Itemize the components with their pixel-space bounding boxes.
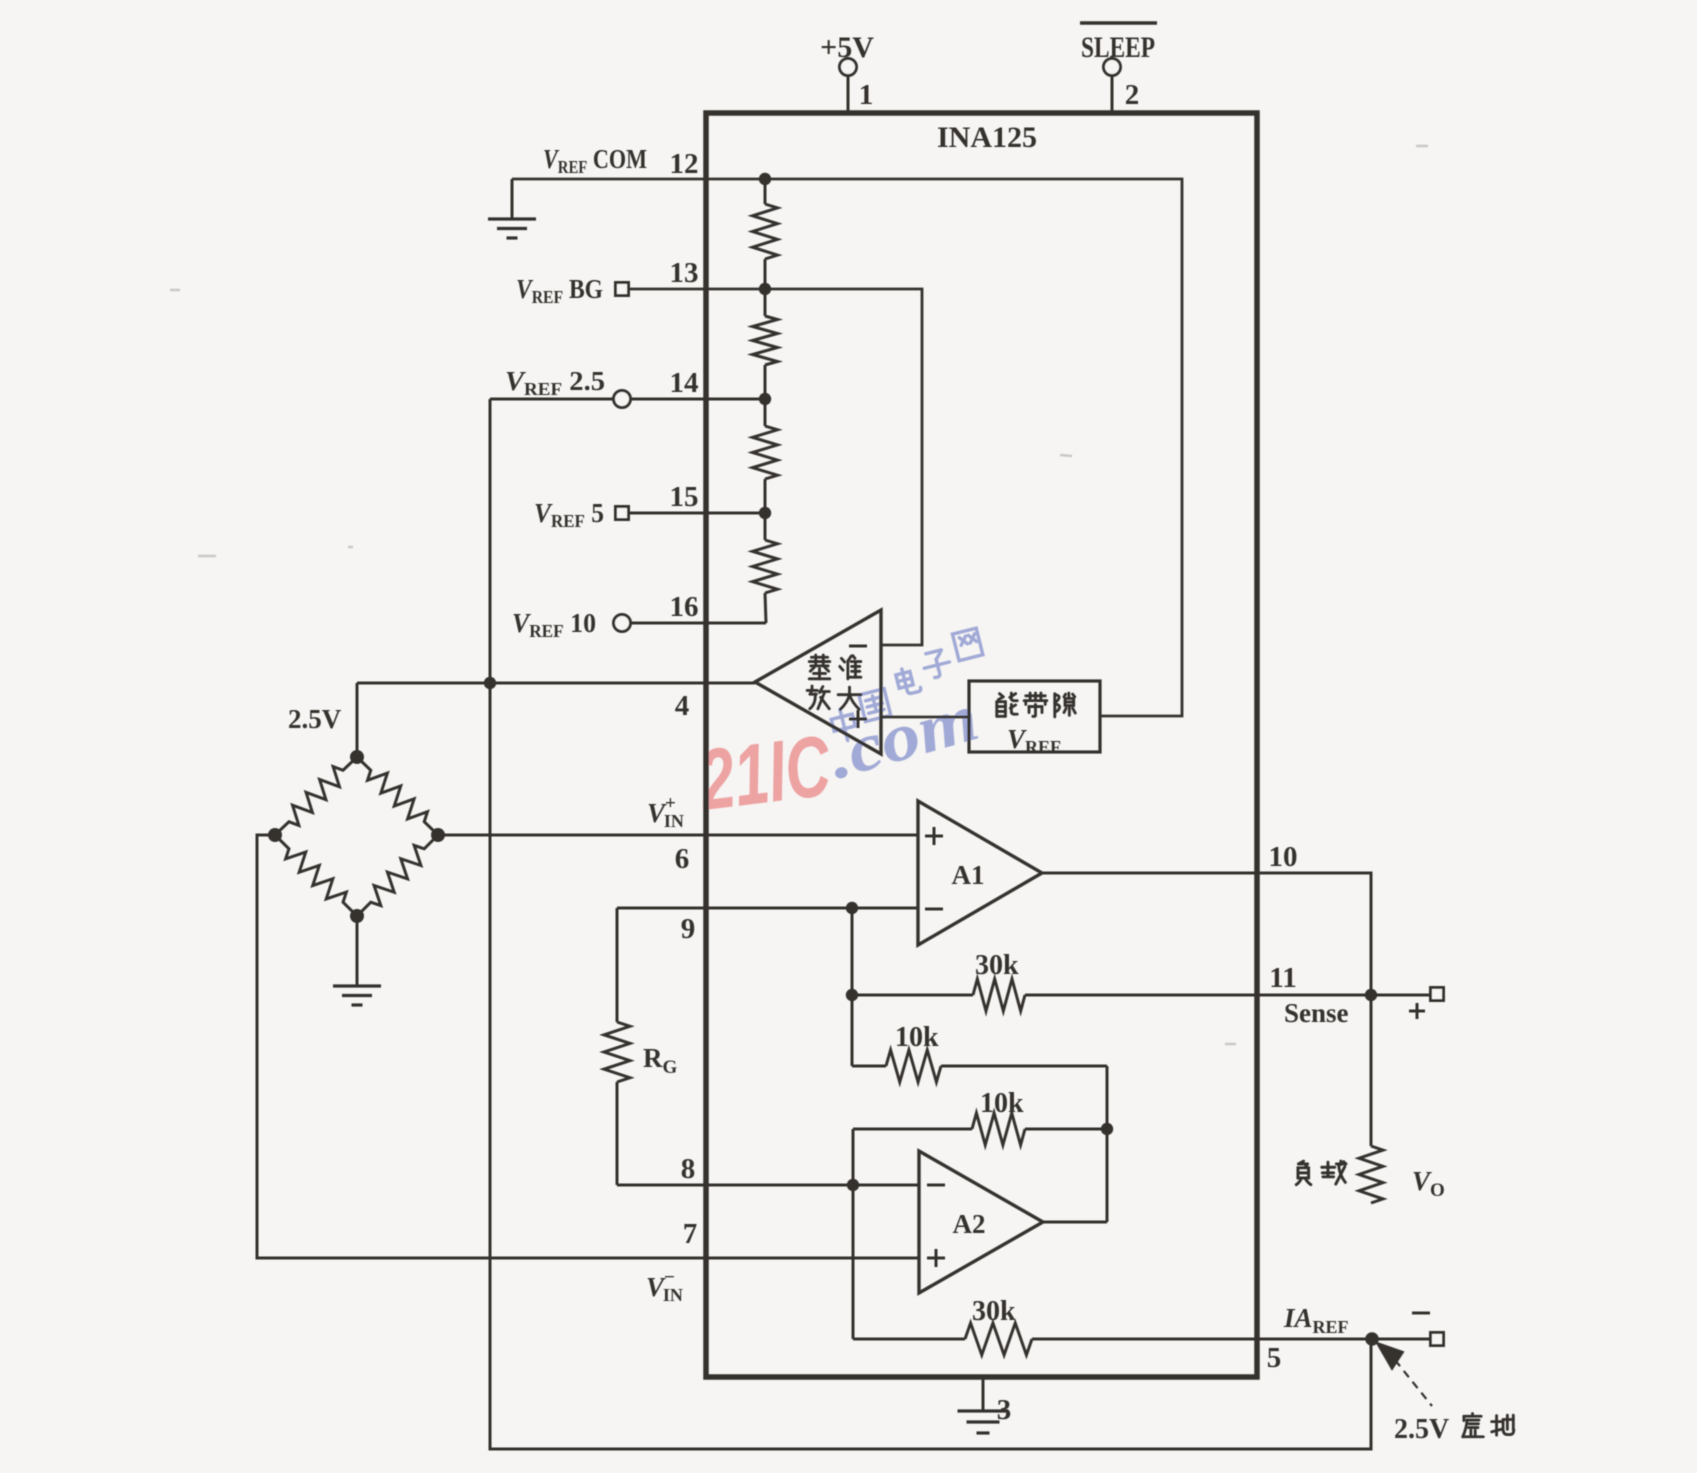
svg-text:10k: 10k [980,1088,1024,1119]
svg-text:21IC: 21IC [693,718,836,829]
svg-text:7: 7 [683,1218,698,1250]
svg-text:11: 11 [1269,962,1296,994]
svg-text:4: 4 [675,690,690,722]
svg-text:2.5V: 2.5V [1394,1414,1449,1445]
svg-text:12: 12 [670,148,699,180]
svg-text:30k: 30k [972,1296,1016,1327]
svg-text:2.5V: 2.5V [288,704,342,734]
svg-text:A2: A2 [953,1209,986,1239]
svg-text:14: 14 [670,367,699,399]
svg-text:13: 13 [670,257,699,289]
svg-text:Sense: Sense [1284,998,1349,1028]
svg-text:6: 6 [675,843,690,875]
svg-text:2: 2 [1125,79,1140,111]
svg-text:8: 8 [681,1153,696,1185]
svg-text:15: 15 [670,481,699,513]
svg-text:9: 9 [681,913,696,945]
svg-text:30k: 30k [975,950,1019,981]
svg-text:5: 5 [1267,1342,1282,1374]
svg-text:A1: A1 [952,860,985,890]
svg-text:10: 10 [1269,841,1298,873]
svg-text:10k: 10k [895,1022,939,1053]
svg-text:+5V: +5V [820,31,874,64]
svg-text:1: 1 [859,79,874,111]
svg-text:INA125: INA125 [937,121,1037,154]
svg-text:16: 16 [670,591,699,623]
svg-text:SLEEP: SLEEP [1081,31,1155,64]
